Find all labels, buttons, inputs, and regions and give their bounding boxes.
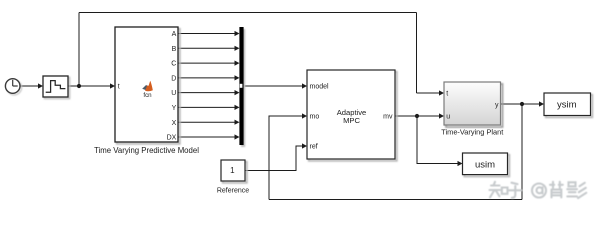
pulse generator block: [43, 76, 68, 97]
wire: clock to pulse generator: [20, 85, 39, 87]
watermark char hu: [509, 183, 522, 198]
svg-text:C: C: [171, 61, 176, 68]
pulse generator staircase icon: [46, 81, 66, 93]
svg-text:t: t: [446, 90, 448, 97]
wire: MPC mv output to plant u input: [396, 115, 440, 117]
wire: down to plant t input level: [416, 13, 418, 94]
svg-text:model: model: [310, 84, 330, 91]
arrowhead Y into mux: [235, 105, 240, 110]
arrowhead into usim: [458, 161, 463, 166]
mux shadow: [241, 29, 245, 147]
usim outport block: [463, 153, 508, 175]
svg-text:u: u: [446, 113, 450, 120]
svg-text:t: t: [118, 84, 120, 91]
arrowhead A into mux: [235, 31, 240, 36]
svg-text:B: B: [172, 46, 177, 53]
wire: output Y to mux: [179, 106, 236, 108]
svg-text:ysim: ysim: [557, 100, 577, 111]
svg-text:U: U: [171, 90, 176, 97]
svg-text:MPC: MPC: [343, 116, 360, 125]
ysim block shadow: [546, 95, 593, 118]
arrowhead into pulse generator: [38, 83, 43, 88]
wire: bottom feedback rail: [269, 199, 522, 201]
wire: mux output to MPC model input: [244, 85, 303, 87]
wire: mv junction down and right to usim: [417, 116, 458, 164]
arrowhead DX into mux: [235, 134, 240, 139]
arrowhead into plant t input: [439, 90, 444, 95]
wire: Reference to MPC ref input: [246, 146, 303, 171]
MATLAB logo orange membrane: [145, 81, 153, 92]
wire: plant y output to ysim: [501, 103, 540, 105]
MPC block shadow: [309, 72, 397, 161]
watermark zhihu @beiying: [490, 182, 587, 198]
svg-text:mv: mv: [383, 114, 393, 121]
svg-text:DX: DX: [167, 135, 177, 142]
svg-text:1: 1: [230, 166, 235, 175]
watermark char bei: [550, 182, 563, 198]
usim block shadow: [464, 155, 509, 177]
svg-text:X: X: [172, 120, 177, 127]
wire: output U to mux: [179, 92, 236, 94]
arrowhead into MPC ref input: [302, 143, 307, 148]
watermark char at: [532, 184, 546, 198]
junction dot on y wire: [520, 102, 524, 106]
svg-text:Time Varying Predictive Model: Time Varying Predictive Model: [94, 146, 199, 155]
wire: output X to mux: [179, 121, 236, 123]
arrowhead into t input: [110, 83, 115, 88]
plant block shadow: [446, 84, 503, 127]
arrowhead into plant u input: [439, 113, 444, 118]
arrowhead into MPC mo input: [302, 113, 307, 118]
wire: into plant t input: [417, 92, 440, 94]
wire: output D to mux: [179, 77, 236, 79]
junction dot after pulse generator: [77, 84, 81, 88]
arrowhead into MPC model input: [302, 83, 307, 88]
arrowhead X into mux: [235, 120, 240, 125]
arrowhead into ysim: [539, 101, 544, 106]
reference constant block: [221, 160, 245, 181]
svg-text:D: D: [171, 76, 176, 83]
pulse generator shadow: [45, 78, 70, 99]
svg-text:Y: Y: [172, 105, 177, 112]
wire: junction up to top rail: [78, 13, 80, 87]
svg-text:Time-Varying Plant: Time-Varying Plant: [441, 127, 503, 136]
clock hands: [13, 80, 18, 86]
watermark char ying: [567, 182, 586, 198]
wire: feedback up into MPC mo input: [269, 116, 303, 200]
wire: output DX to mux: [179, 136, 236, 138]
predictive model block: [115, 27, 178, 142]
svg-text:Reference: Reference: [217, 187, 249, 194]
svg-text:mo: mo: [310, 114, 320, 121]
svg-text:fcn: fcn: [143, 92, 152, 99]
wire: top horizontal rail: [79, 12, 417, 14]
mux block: [239, 27, 243, 145]
arrowhead B into mux: [235, 46, 240, 51]
svg-text:usim: usim: [475, 160, 495, 171]
svg-text:A: A: [172, 31, 177, 38]
wire: pulse generator to predictive model t input: [69, 85, 111, 87]
reference block shadow: [223, 162, 247, 183]
MATLAB logo dark wing: [142, 85, 148, 91]
mux output port notch: [240, 84, 243, 88]
clock block shadow: [7, 80, 22, 95]
adaptive MPC block: [307, 70, 395, 159]
junction dot on mv wire: [415, 114, 419, 118]
arrowhead C into mux: [235, 61, 240, 66]
arrowhead U into mux: [235, 90, 240, 95]
wire: ysim junction down to bottom rail: [521, 104, 523, 200]
svg-text:ref: ref: [310, 144, 318, 151]
ysim outport block: [544, 93, 591, 116]
time-varying plant block: [444, 82, 501, 125]
arrowhead D into mux: [235, 75, 240, 80]
svg-text:y: y: [495, 102, 499, 109]
clock block: [5, 79, 20, 94]
wire: output B to mux: [179, 47, 236, 49]
wire: output A to mux: [179, 33, 236, 35]
wire: output C to mux: [179, 62, 236, 64]
predictive model block shadow: [117, 29, 180, 144]
watermark char zhi: [490, 182, 501, 198]
